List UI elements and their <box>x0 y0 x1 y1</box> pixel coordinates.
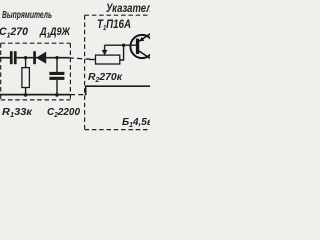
wire: R2 left lead <box>90 59 96 61</box>
potentiometer wiper arrow <box>102 50 108 56</box>
wire: dashed link bottom (between blocks) <box>70 94 86 96</box>
transistor collector <box>139 51 151 59</box>
transistor emitter (arrow to base) <box>139 34 151 42</box>
node: R1 bottom junction <box>24 93 28 97</box>
node: C2 top junction <box>55 56 58 59</box>
wire: C2 top lead <box>56 58 58 72</box>
wire: top rail into C1 <box>0 57 10 59</box>
paper background <box>0 0 150 150</box>
dashed enclosure box: rectifier <box>1 42 71 44</box>
svg-text:Д1Д9Ж: Д1Д9Ж <box>39 26 70 39</box>
dashed enclosure box: indicator <box>85 14 151 16</box>
wire: R1 bottom lead <box>25 88 27 96</box>
node: C2 bottom junction <box>55 93 59 97</box>
wire: bottom rail <box>0 94 70 96</box>
wire: C1 to diode to box edge <box>16 57 69 59</box>
node: R1 top junction <box>24 56 27 59</box>
transistor T1 circle <box>130 35 153 58</box>
wire: junction down to R2 right terminal <box>120 45 124 60</box>
svg-text:Б14,5в: Б14,5в <box>122 116 150 129</box>
potentiometer R2 body <box>96 55 120 64</box>
svg-text:Выпрямитель: Выпрямитель <box>2 10 52 21</box>
capacitor C1 <box>10 51 13 64</box>
transistor base bar <box>136 39 139 54</box>
node: base junction <box>122 44 125 47</box>
svg-text:Т1П16А: Т1П16А <box>97 17 131 32</box>
svg-text:С1270: С1270 <box>0 26 29 39</box>
svg-text:R2270к: R2270к <box>88 71 123 84</box>
wire: wiper to base <box>105 44 137 46</box>
svg-text:Указател: Указател <box>106 1 150 15</box>
wire: dashed link top (between blocks) <box>69 58 91 59</box>
capacitor C2 <box>49 72 64 75</box>
diode D1 <box>33 51 36 64</box>
svg-text:R133к: R133к <box>2 106 33 119</box>
wire: C2 bottom lead <box>56 80 58 95</box>
resistor R1 <box>22 68 30 88</box>
wire: R1 top lead <box>25 58 27 68</box>
wire: step up to negative rail <box>86 86 150 95</box>
svg-text:С22200: С22200 <box>47 106 80 119</box>
